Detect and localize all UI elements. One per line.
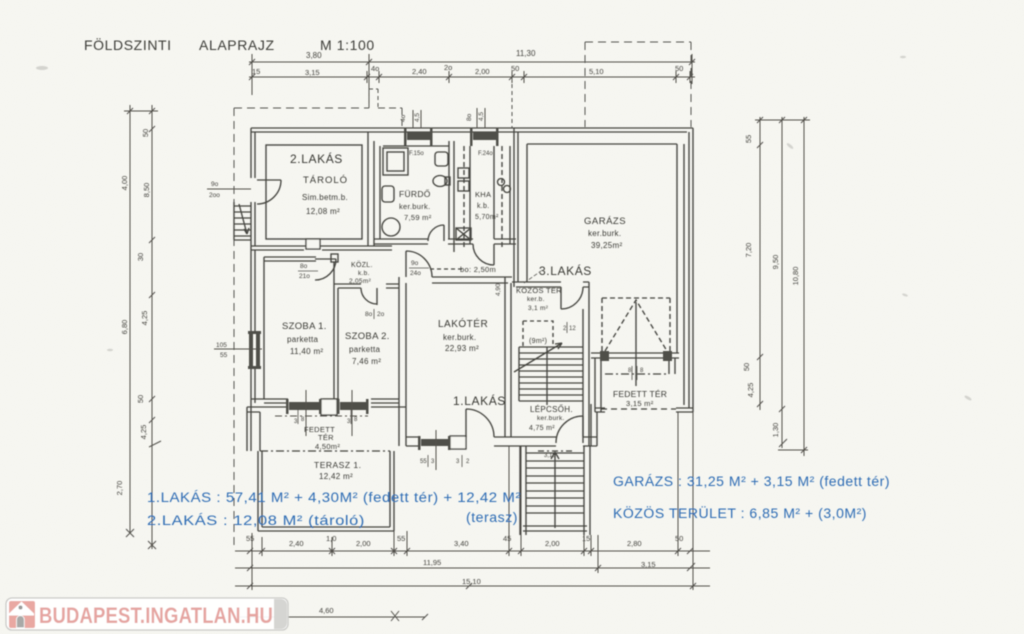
entry door posts — [450, 436, 466, 449]
top dim line 1 — [249, 61, 695, 63]
terasz front dash-dot — [260, 450, 390, 452]
stair centre rail — [546, 347, 548, 405]
svg-text:3.LAKÁS: 3.LAKÁS — [539, 263, 592, 278]
scan smudges — [36, 56, 972, 401]
svg-text:FÖLDSZINTI: FÖLDSZINTI — [84, 36, 172, 53]
walls — [234, 128, 693, 535]
svg-text:4,25: 4,25 — [140, 311, 149, 326]
shaft dash + boxes — [463, 146, 465, 250]
svg-text:1,30: 1,30 — [771, 423, 780, 438]
carport posts — [600, 351, 609, 361]
svg-text:45: 45 — [503, 534, 511, 543]
bottom dim line 3 — [235, 585, 710, 587]
svg-text:3,15: 3,15 — [305, 68, 320, 77]
svg-text:GARÁZS : 31,25 M² + 3,15 M² (: GARÁZS : 31,25 M² + 3,15 M² (fedett tér) — [613, 474, 890, 489]
svg-text:3,15: 3,15 — [641, 560, 656, 569]
stair treads — [519, 347, 583, 401]
blue annotations — [147, 474, 890, 528]
toilet — [433, 176, 447, 187]
kha top window — [470, 128, 473, 146]
svg-text:KÖZL.: KÖZL. — [351, 261, 373, 269]
svg-text:ker.burk.: ker.burk. — [537, 415, 565, 422]
svg-text:k.b.: k.b. — [477, 203, 489, 210]
svg-text:SZOBA 1.: SZOBA 1. — [282, 321, 327, 332]
svg-text:12: 12 — [569, 326, 576, 332]
svg-text:parketta: parketta — [349, 345, 381, 354]
svg-text:4,5: 4,5 — [478, 112, 485, 121]
fürdő walls — [380, 141, 454, 252]
szoba2 door — [361, 288, 377, 305]
svg-text:(terasz): (terasz) — [466, 510, 518, 525]
wall taroló/fürdő — [368, 132, 374, 246]
svg-text:22,93 m²: 22,93 m² — [445, 344, 479, 353]
svg-text:ker.burk.: ker.burk. — [443, 333, 476, 342]
lakótér top-left door — [406, 251, 432, 277]
window guide lines above top wall — [207, 108, 485, 470]
svg-text:55: 55 — [744, 135, 753, 143]
svg-text:FEDETT TÉR: FEDETT TÉR — [613, 389, 667, 399]
svg-text:BUDAPEST.INGATLAN.HU: BUDAPEST.INGATLAN.HU — [39, 603, 273, 628]
left exterior wall szoba1 — [251, 250, 255, 407]
svg-text:3,80: 3,80 — [306, 51, 322, 60]
svg-text:2.LAKÁS: 2.LAKÁS — [290, 151, 343, 166]
carport centre line — [635, 302, 637, 386]
svg-text:TÁROLÓ: TÁROLÓ — [303, 175, 348, 186]
svg-text:8o: 8o — [365, 311, 373, 318]
fedett tér 3 left wall — [595, 358, 601, 412]
fedett tér dash-dot — [605, 373, 669, 375]
szoba2 top wall — [334, 284, 399, 288]
kha walls — [470, 146, 494, 244]
stairwell right wall — [583, 282, 589, 446]
szoba bottom wall — [247, 399, 406, 407]
svg-text:11,95: 11,95 — [423, 558, 441, 567]
svg-text:FÜRDŐ: FÜRDŐ — [399, 189, 431, 199]
svg-text:GARÁZS: GARÁZS — [584, 216, 626, 227]
szoba1 top wall — [264, 257, 316, 261]
svg-text:ker.burk.: ker.burk. — [399, 202, 430, 211]
svg-text:4,00: 4,00 — [120, 176, 129, 191]
svg-text:105: 105 — [216, 342, 227, 349]
svg-text:50: 50 — [141, 129, 150, 137]
svg-text:1.LAKÁS: 1.LAKÁS — [453, 393, 506, 408]
shower — [383, 148, 408, 175]
terasz walls — [258, 451, 394, 531]
svg-text:50: 50 — [675, 64, 683, 73]
közös tér top wall — [512, 282, 589, 287]
svg-text:50: 50 — [136, 395, 145, 403]
bottom ticks line4 — [391, 611, 428, 621]
dashed overlay lines — [234, 42, 691, 546]
svg-text:SZOBA 2.: SZOBA 2. — [345, 331, 390, 342]
taroló bottom wall — [251, 246, 392, 250]
watermark right tab — [274, 599, 287, 629]
svg-text:9o: 9o — [211, 181, 219, 188]
fürdő top window — [404, 128, 407, 146]
svg-text:8o: 8o — [300, 263, 308, 270]
svg-text:TERASZ 1.: TERASZ 1. — [314, 460, 361, 470]
svg-text:7,46 m²: 7,46 m² — [352, 357, 381, 366]
taroló door — [257, 180, 281, 204]
svg-text:10,80: 10,80 — [791, 267, 800, 286]
svg-text:55: 55 — [420, 459, 427, 465]
svg-text:11,30: 11,30 — [516, 49, 536, 58]
dimension lines group — [124, 54, 810, 621]
watermark house icon — [9, 601, 35, 628]
svg-text:2,40: 2,40 — [289, 539, 304, 548]
lakótér right wall — [505, 277, 511, 437]
svg-text:7,20: 7,20 — [744, 243, 753, 258]
left exterior wall taroló — [251, 128, 255, 250]
right dim ticks — [757, 117, 807, 453]
svg-text:39,25m²: 39,25m² — [591, 241, 622, 250]
svg-text:F.15o: F.15o — [409, 151, 424, 157]
közös tér door — [561, 287, 583, 309]
szoba1 door — [315, 259, 336, 280]
svg-text:55: 55 — [246, 534, 254, 543]
svg-text:KÖZÖS TERÜLET : 6,85 M² + (3,: KÖZÖS TERÜLET : 6,85 M² + (3,0M²) — [613, 506, 867, 521]
svg-text:2o: 2o — [444, 63, 452, 72]
svg-text:4,25: 4,25 — [746, 383, 755, 398]
szoba1 door post — [331, 254, 338, 262]
svg-text:3,15: 3,15 — [544, 453, 556, 459]
svg-text:15: 15 — [252, 67, 260, 76]
svg-text:ker.burk.: ker.burk. — [588, 229, 621, 238]
bottom ticks line2 — [247, 563, 695, 571]
svg-text:5,70m²: 5,70m² — [475, 214, 499, 221]
svg-text:ker.b.: ker.b. — [527, 296, 545, 303]
svg-text:8o: 8o — [466, 113, 473, 121]
top dim ticks — [249, 59, 695, 65]
svg-text:LAKÓTÉR: LAKÓTÉR — [438, 317, 488, 330]
szoba1 left window — [249, 334, 253, 366]
svg-text:F.24o: F.24o — [478, 151, 493, 157]
svg-text:1,0: 1,0 — [326, 534, 336, 543]
svg-text:15: 15 — [582, 534, 590, 543]
svg-text:55: 55 — [220, 352, 228, 359]
svg-text:3,1 m²: 3,1 m² — [528, 305, 549, 312]
svg-text:7,59 m²: 7,59 m² — [404, 213, 432, 222]
svg-text:4,60: 4,60 — [319, 606, 334, 615]
sink left — [382, 186, 394, 202]
bottom ticks line3 — [247, 583, 696, 589]
stair up-flight dashed — [523, 321, 553, 347]
bottom dim line 4 — [240, 616, 425, 618]
right dim lines — [755, 117, 810, 456]
szoba1 window — [286, 399, 289, 414]
chimney notch — [306, 239, 320, 249]
svg-text:30: 30 — [136, 253, 145, 261]
svg-text:ALAPRAJZ: ALAPRAJZ — [199, 37, 275, 53]
svg-text:2oo: 2oo — [209, 192, 220, 199]
svg-text:50: 50 — [511, 64, 519, 73]
svg-text:4,5: 4,5 — [414, 113, 421, 122]
svg-text:2,40: 2,40 — [412, 67, 427, 76]
svg-text:2,80: 2,80 — [627, 539, 642, 548]
svg-text:1.LAKÁS : 57,41 M² + 4,30M²: 1.LAKÁS : 57,41 M² + 4,30M² (fedett tér)… — [147, 490, 521, 505]
svg-text:9o: 9o — [411, 260, 419, 267]
svg-text:(9m²): (9m²) — [529, 338, 547, 345]
svg-text:8,50: 8,50 — [142, 183, 151, 198]
svg-text:12,08 m²: 12,08 m² — [306, 207, 340, 216]
fürdő bottom wall — [374, 239, 454, 244]
svg-text:4o: 4o — [371, 64, 379, 73]
szoba2/lakótér wall — [399, 277, 406, 446]
entry window — [418, 436, 421, 450]
svg-text:6,80: 6,80 — [120, 320, 129, 335]
garage east wall — [684, 128, 693, 412]
svg-text:24o: 24o — [410, 270, 421, 277]
svg-text:4,50m²: 4,50m² — [315, 442, 340, 451]
fedett tér 3 dashed south edge — [601, 408, 676, 410]
window hatch blocks — [248, 128, 672, 450]
dimension labels — [306, 49, 536, 60]
fedett tér left wall — [247, 407, 260, 451]
bottom wall stairs block — [516, 404, 597, 446]
bottom ticks line1 — [247, 548, 693, 554]
window pillar — [321, 399, 337, 415]
external stair left — [234, 202, 251, 240]
svg-text:4,25: 4,25 — [139, 425, 148, 440]
bottom dim line 1 — [235, 550, 710, 552]
svg-text:2o: 2o — [377, 311, 385, 318]
svg-text:2,00: 2,00 — [356, 539, 371, 548]
exterior stairs — [520, 446, 590, 535]
kha bottom wall — [454, 239, 516, 244]
bottom witness lines — [252, 412, 693, 590]
svg-text:4o: 4o — [400, 114, 407, 122]
stair diagonal — [514, 343, 562, 372]
sink right — [435, 152, 448, 166]
title — [84, 36, 375, 53]
svg-text:12,42 m²: 12,42 m² — [319, 472, 353, 481]
left dim lines — [124, 105, 158, 549]
svg-text:M 1:100: M 1:100 — [320, 37, 375, 53]
svg-text:parketta: parketta — [287, 335, 319, 344]
watermark box — [6, 598, 288, 630]
szoba1 inner left — [263, 257, 265, 399]
garage/fedett bottom corner — [595, 408, 693, 412]
tiny dimension texts — [209, 112, 644, 465]
garage inner — [527, 144, 679, 358]
svg-text:11,40 m²: 11,40 m² — [290, 347, 323, 356]
svg-text:2,05m²: 2,05m² — [349, 278, 372, 285]
svg-text:15,10: 15,10 — [462, 577, 481, 586]
lakótér top wall — [432, 277, 512, 283]
watermark — [6, 598, 288, 630]
svg-text:3,15 m²: 3,15 m² — [626, 399, 654, 408]
svg-text:k.b.: k.b. — [358, 270, 370, 277]
svg-text:5,10: 5,10 — [589, 67, 604, 76]
svg-text:2,00: 2,00 — [545, 539, 560, 548]
svg-text:50: 50 — [742, 363, 751, 371]
top exterior wall — [251, 128, 693, 132]
svg-text:Sim.betm.b.: Sim.betm.b. — [302, 193, 348, 202]
washer — [382, 218, 400, 236]
room labels — [282, 151, 667, 481]
svg-text:9,50: 9,50 — [771, 255, 780, 270]
svg-text:4,75 m²: 4,75 m² — [529, 425, 555, 432]
kha door — [473, 244, 494, 265]
svg-text:4,90: 4,90 — [495, 283, 502, 296]
top dim stubs — [252, 54, 692, 108]
garage west wall — [514, 128, 518, 287]
svg-text:LÉPCSŐH.: LÉPCSŐH. — [530, 405, 573, 414]
svg-text:KÖZÖS TÉR: KÖZÖS TÉR — [516, 286, 562, 295]
corridor dash passage — [430, 268, 462, 270]
carport gable — [605, 300, 667, 351]
svg-text:TÉR: TÉR — [318, 433, 334, 442]
lakótér bottom wall — [406, 437, 516, 446]
carport dashes — [602, 298, 670, 352]
fedett tér 3 stub right — [669, 358, 675, 374]
stairs bottom door — [556, 416, 583, 443]
szoba2 window — [337, 399, 340, 414]
entry door — [466, 409, 494, 437]
svg-text:21o: 21o — [299, 273, 310, 280]
svg-text:2.LAKÁS : 12,08 M² (tároló): 2.LAKÁS : 12,08 M² (tároló) — [147, 513, 365, 528]
bottom dim line 2 — [235, 567, 710, 569]
svg-text:3,40: 3,40 — [454, 539, 469, 548]
top dim line 2 — [249, 76, 695, 78]
svg-text:2,70: 2,70 — [115, 481, 124, 496]
taroló room inner — [266, 145, 362, 239]
svg-text:KHA: KHA — [475, 190, 491, 199]
svg-text:bo: 2,50m: bo: 2,50m — [460, 265, 496, 274]
svg-text:50: 50 — [675, 534, 683, 543]
svg-text:2,00: 2,00 — [475, 67, 490, 76]
szoba divider wall — [334, 262, 338, 399]
left dim ticks — [127, 108, 161, 447]
fürdő door — [428, 225, 444, 241]
svg-text:55: 55 — [397, 534, 405, 543]
